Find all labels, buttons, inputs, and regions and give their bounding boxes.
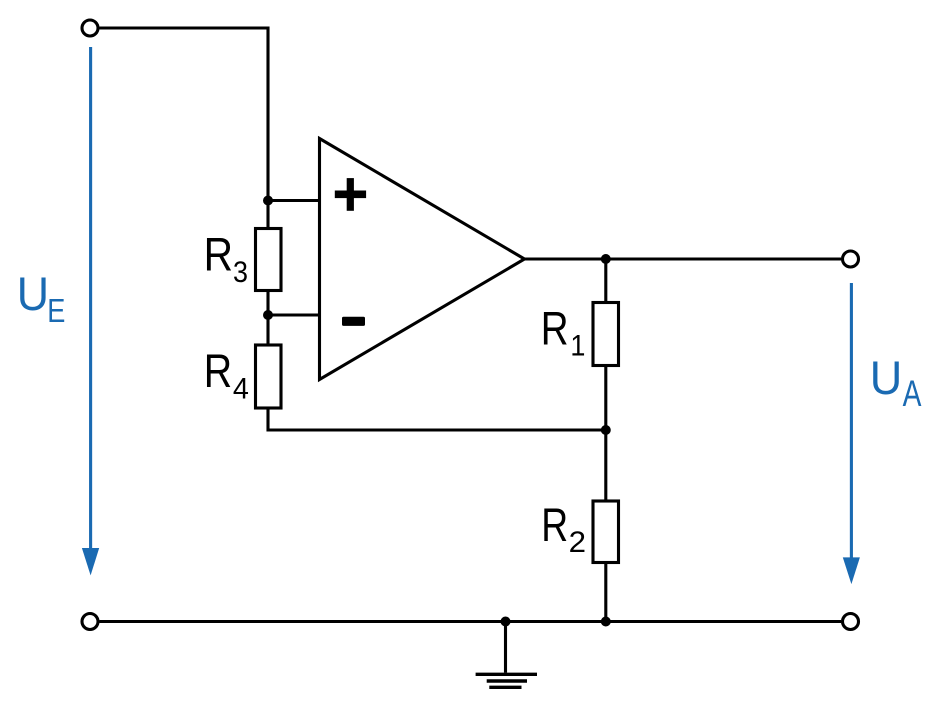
wire top input to op-amp branch — [100, 28, 269, 201]
wire bottom rail — [100, 620, 842, 623]
wire op-amp output — [525, 257, 842, 260]
svg-text:4: 4 — [233, 373, 249, 406]
terminal output right — [843, 251, 859, 267]
node ground junction — [501, 617, 511, 627]
svg-text:R: R — [204, 345, 232, 398]
wire R1 bottom to divider node — [604, 366, 607, 431]
node R2 bottom junction — [601, 617, 611, 627]
wire node to R3 top — [266, 201, 269, 229]
wire feedback from R4 bottom to divider node — [268, 408, 606, 430]
terminal bottom-right — [843, 614, 859, 630]
svg-text:2: 2 — [569, 526, 586, 559]
wire inverting input stub — [268, 313, 320, 316]
svg-text:U: U — [17, 268, 49, 321]
svg-text:R: R — [541, 302, 569, 355]
wire R2 bottom to ground rail — [604, 563, 607, 622]
wire R3 bottom to R4 top — [266, 292, 269, 346]
op-amp U1 triangle — [320, 139, 525, 380]
svg-text:A: A — [903, 372, 922, 414]
resistor R3 — [256, 229, 282, 291]
svg-text:1: 1 — [570, 330, 585, 363]
svg-text:R: R — [541, 499, 568, 552]
node junction at + input — [263, 196, 273, 206]
svg-text:E: E — [47, 293, 65, 330]
svg-text:R: R — [204, 229, 233, 282]
svg-text:3: 3 — [233, 256, 248, 289]
node junction at - input — [263, 310, 273, 320]
voltage arrow UA — [843, 283, 860, 584]
voltage arrow UE — [82, 47, 99, 575]
resistor R1 — [593, 303, 619, 366]
resistor R4 — [256, 345, 282, 408]
svg-text:U: U — [870, 352, 903, 405]
wire noninverting input stub — [268, 199, 320, 202]
terminal bottom-left — [82, 614, 98, 630]
wire output node to R1 — [604, 259, 607, 303]
wire divider node to R2 — [604, 430, 607, 501]
terminal input top-left — [82, 20, 98, 36]
node divider junction — [601, 425, 611, 435]
op-amp - pin symbol — [342, 317, 365, 326]
node output junction — [601, 254, 611, 264]
op-amp + pin symbol — [335, 178, 366, 211]
resistor R2 — [593, 501, 619, 563]
ground symbol — [476, 622, 537, 688]
